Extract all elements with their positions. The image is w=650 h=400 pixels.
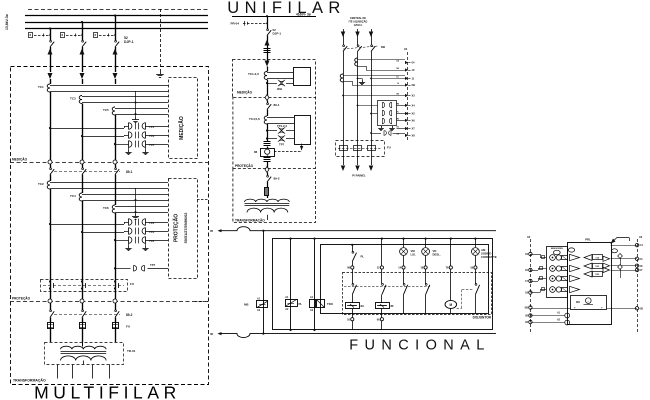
svg-text:TC5: TC5 <box>103 108 109 112</box>
svg-text:TP1: TP1 <box>149 125 155 129</box>
svg-text:X6: X6 <box>412 119 416 123</box>
svg-text:X4: X4 <box>412 104 416 108</box>
svg-text:89-1: 89-1 <box>126 170 133 174</box>
svg-text:X3: X3 <box>412 94 416 98</box>
svg-text:MULTIFILAR: MULTIFILAR <box>34 383 181 400</box>
svg-text:TC1-2,3: TC1-2,3 <box>248 72 259 76</box>
svg-text:TRANSFORMAÇÃO: TRANSFORMAÇÃO <box>235 218 265 223</box>
svg-text:TC6: TC6 <box>103 206 109 210</box>
svg-text:4160V- 3ø: 4160V- 3ø <box>296 13 311 17</box>
svg-text:TP6: TP6 <box>149 239 155 243</box>
svg-text:LIG.: LIG. <box>411 253 417 257</box>
svg-text:PROTEÇÃO: PROTEÇÃO <box>173 214 180 242</box>
svg-text:TC3: TC3 <box>70 97 76 101</box>
svg-text:X8: X8 <box>412 134 416 138</box>
svg-text:M: M <box>449 303 452 307</box>
svg-text:TC1: TC1 <box>38 85 44 89</box>
svg-text:0B: 0B <box>525 306 528 310</box>
svg-text:DJP-1: DJP-1 <box>124 40 134 44</box>
svg-text:89-2: 89-2 <box>274 177 280 181</box>
svg-text:P/ PAINEL: P/ PAINEL <box>352 174 366 178</box>
svg-text:PL: PL <box>361 255 365 259</box>
svg-text:13,8kV-3ø: 13,8kV-3ø <box>5 13 9 30</box>
svg-text:DB: DB <box>381 45 385 49</box>
svg-text:TDO: TDO <box>327 302 334 306</box>
svg-text:UNIFILAR: UNIFILAR <box>227 0 345 17</box>
svg-text:PR-04: PR-04 <box>231 22 240 26</box>
svg-text:TP2: TP2 <box>149 221 155 225</box>
svg-text:WH: WH <box>277 87 282 91</box>
svg-text:1A: 1A <box>396 60 399 63</box>
svg-text:C4: C4 <box>640 243 644 247</box>
svg-text:TP3: TP3 <box>149 134 155 138</box>
svg-text:CORRENTE: CORRENTE <box>481 255 497 259</box>
svg-text:+: + <box>574 306 576 310</box>
svg-text:~: ~ <box>587 299 589 303</box>
svg-text:30: 30 <box>210 332 214 336</box>
svg-text:86: 86 <box>254 150 258 154</box>
svg-text:TC4,5,6: TC4,5,6 <box>249 117 260 121</box>
svg-text:8F: 8F <box>391 304 395 308</box>
svg-text:PRL: PRL <box>585 238 591 242</box>
svg-text:12D: 12D <box>595 274 599 276</box>
svg-text:PL: PL <box>299 302 303 306</box>
svg-text:X2: X2 <box>527 235 531 239</box>
svg-text:1B: 1B <box>396 68 399 70</box>
svg-text:TC2: TC2 <box>38 182 44 186</box>
svg-text:X1: X1 <box>404 47 408 51</box>
svg-text:TP4: TP4 <box>149 230 155 234</box>
svg-text:MEDIÇÃO: MEDIÇÃO <box>12 157 28 162</box>
svg-text:PROTEÇÃO: PROTEÇÃO <box>235 163 254 168</box>
svg-text:FU: FU <box>126 325 130 329</box>
svg-text:DISJUNTOR: DISJUNTOR <box>473 316 492 320</box>
svg-text:WH: WH <box>576 301 580 304</box>
svg-text:TP7: TP7 <box>279 143 285 147</box>
svg-text:TP1-2,3: TP1-2,3 <box>277 124 287 128</box>
svg-text:MB: MB <box>244 303 248 307</box>
svg-text:8A: 8A <box>361 304 365 308</box>
svg-text:X5: X5 <box>412 112 416 116</box>
svg-text:DJP-1: DJP-1 <box>273 32 282 36</box>
svg-text:SENSORES: SENSORES <box>551 248 564 250</box>
svg-text:0B: 0B <box>412 83 415 87</box>
svg-text:TP5: TP5 <box>149 143 155 147</box>
svg-text:DESL.: DESL. <box>433 253 441 257</box>
svg-text:X2: X2 <box>639 235 643 239</box>
svg-text:TR-01: TR-01 <box>127 349 136 353</box>
svg-text:MEDIÇÃO: MEDIÇÃO <box>178 116 185 140</box>
svg-text:TP7: TP7 <box>150 263 156 267</box>
svg-text:PROTEÇÃO: PROTEÇÃO <box>12 296 31 301</box>
svg-text:+: + <box>601 306 603 310</box>
svg-text:89-2: 89-2 <box>126 313 133 317</box>
svg-text:0B: 0B <box>640 306 643 310</box>
svg-text:FUNCIONAL: FUNCIONAL <box>349 338 490 354</box>
svg-text:05: 05 <box>210 229 214 233</box>
svg-text:50/51/27/59/86/62: 50/51/27/59/86/62 <box>184 213 188 244</box>
svg-text:FU: FU <box>387 146 391 150</box>
svg-text:12D: 12D <box>595 266 599 268</box>
svg-text:MEDIÇÃO: MEDIÇÃO <box>237 90 253 95</box>
svg-text:TC4: TC4 <box>70 194 76 198</box>
svg-text:125Vcc: 125Vcc <box>354 24 363 27</box>
svg-text:FU: FU <box>130 282 134 286</box>
svg-text:89-1: 89-1 <box>274 103 280 107</box>
svg-text:X7: X7 <box>412 127 416 131</box>
